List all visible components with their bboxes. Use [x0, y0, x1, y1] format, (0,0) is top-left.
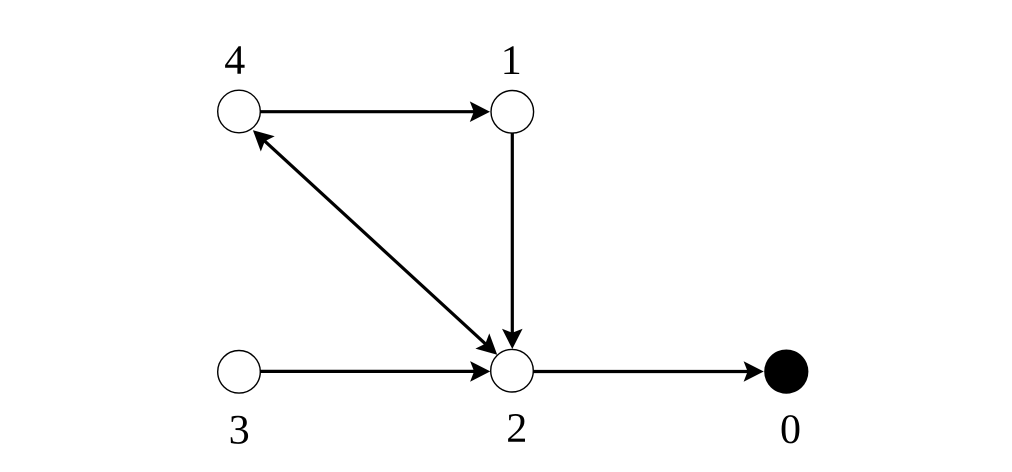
- arrowhead into node 0: [744, 361, 764, 382]
- node 2: [491, 349, 534, 392]
- node 1: [491, 91, 534, 134]
- arrowhead into node 2 from node 4: [475, 333, 497, 354]
- node 0 (filled): [764, 350, 808, 394]
- wire: double-headed diagonal edge between 4 and 2: [264, 140, 486, 344]
- label 1: [504, 46, 519, 74]
- arrowhead into node 2 from node 3: [470, 361, 490, 382]
- wire: edge 4 to 1: [260, 110, 475, 113]
- node 4: [218, 90, 261, 133]
- wire: edge 1 to 2: [511, 133, 514, 334]
- arrowhead into node 2 from node 1: [502, 329, 523, 349]
- arrowhead into node 4: [253, 130, 275, 151]
- label 4: [225, 46, 245, 74]
- node 3: [218, 351, 261, 394]
- wire: edge 2 to 0: [534, 370, 749, 373]
- arrowhead into node 1: [470, 101, 490, 122]
- label 2: [508, 414, 525, 442]
- label 3: [231, 416, 248, 444]
- wire: edge 3 to 2: [260, 370, 475, 373]
- label 0: [782, 415, 800, 443]
